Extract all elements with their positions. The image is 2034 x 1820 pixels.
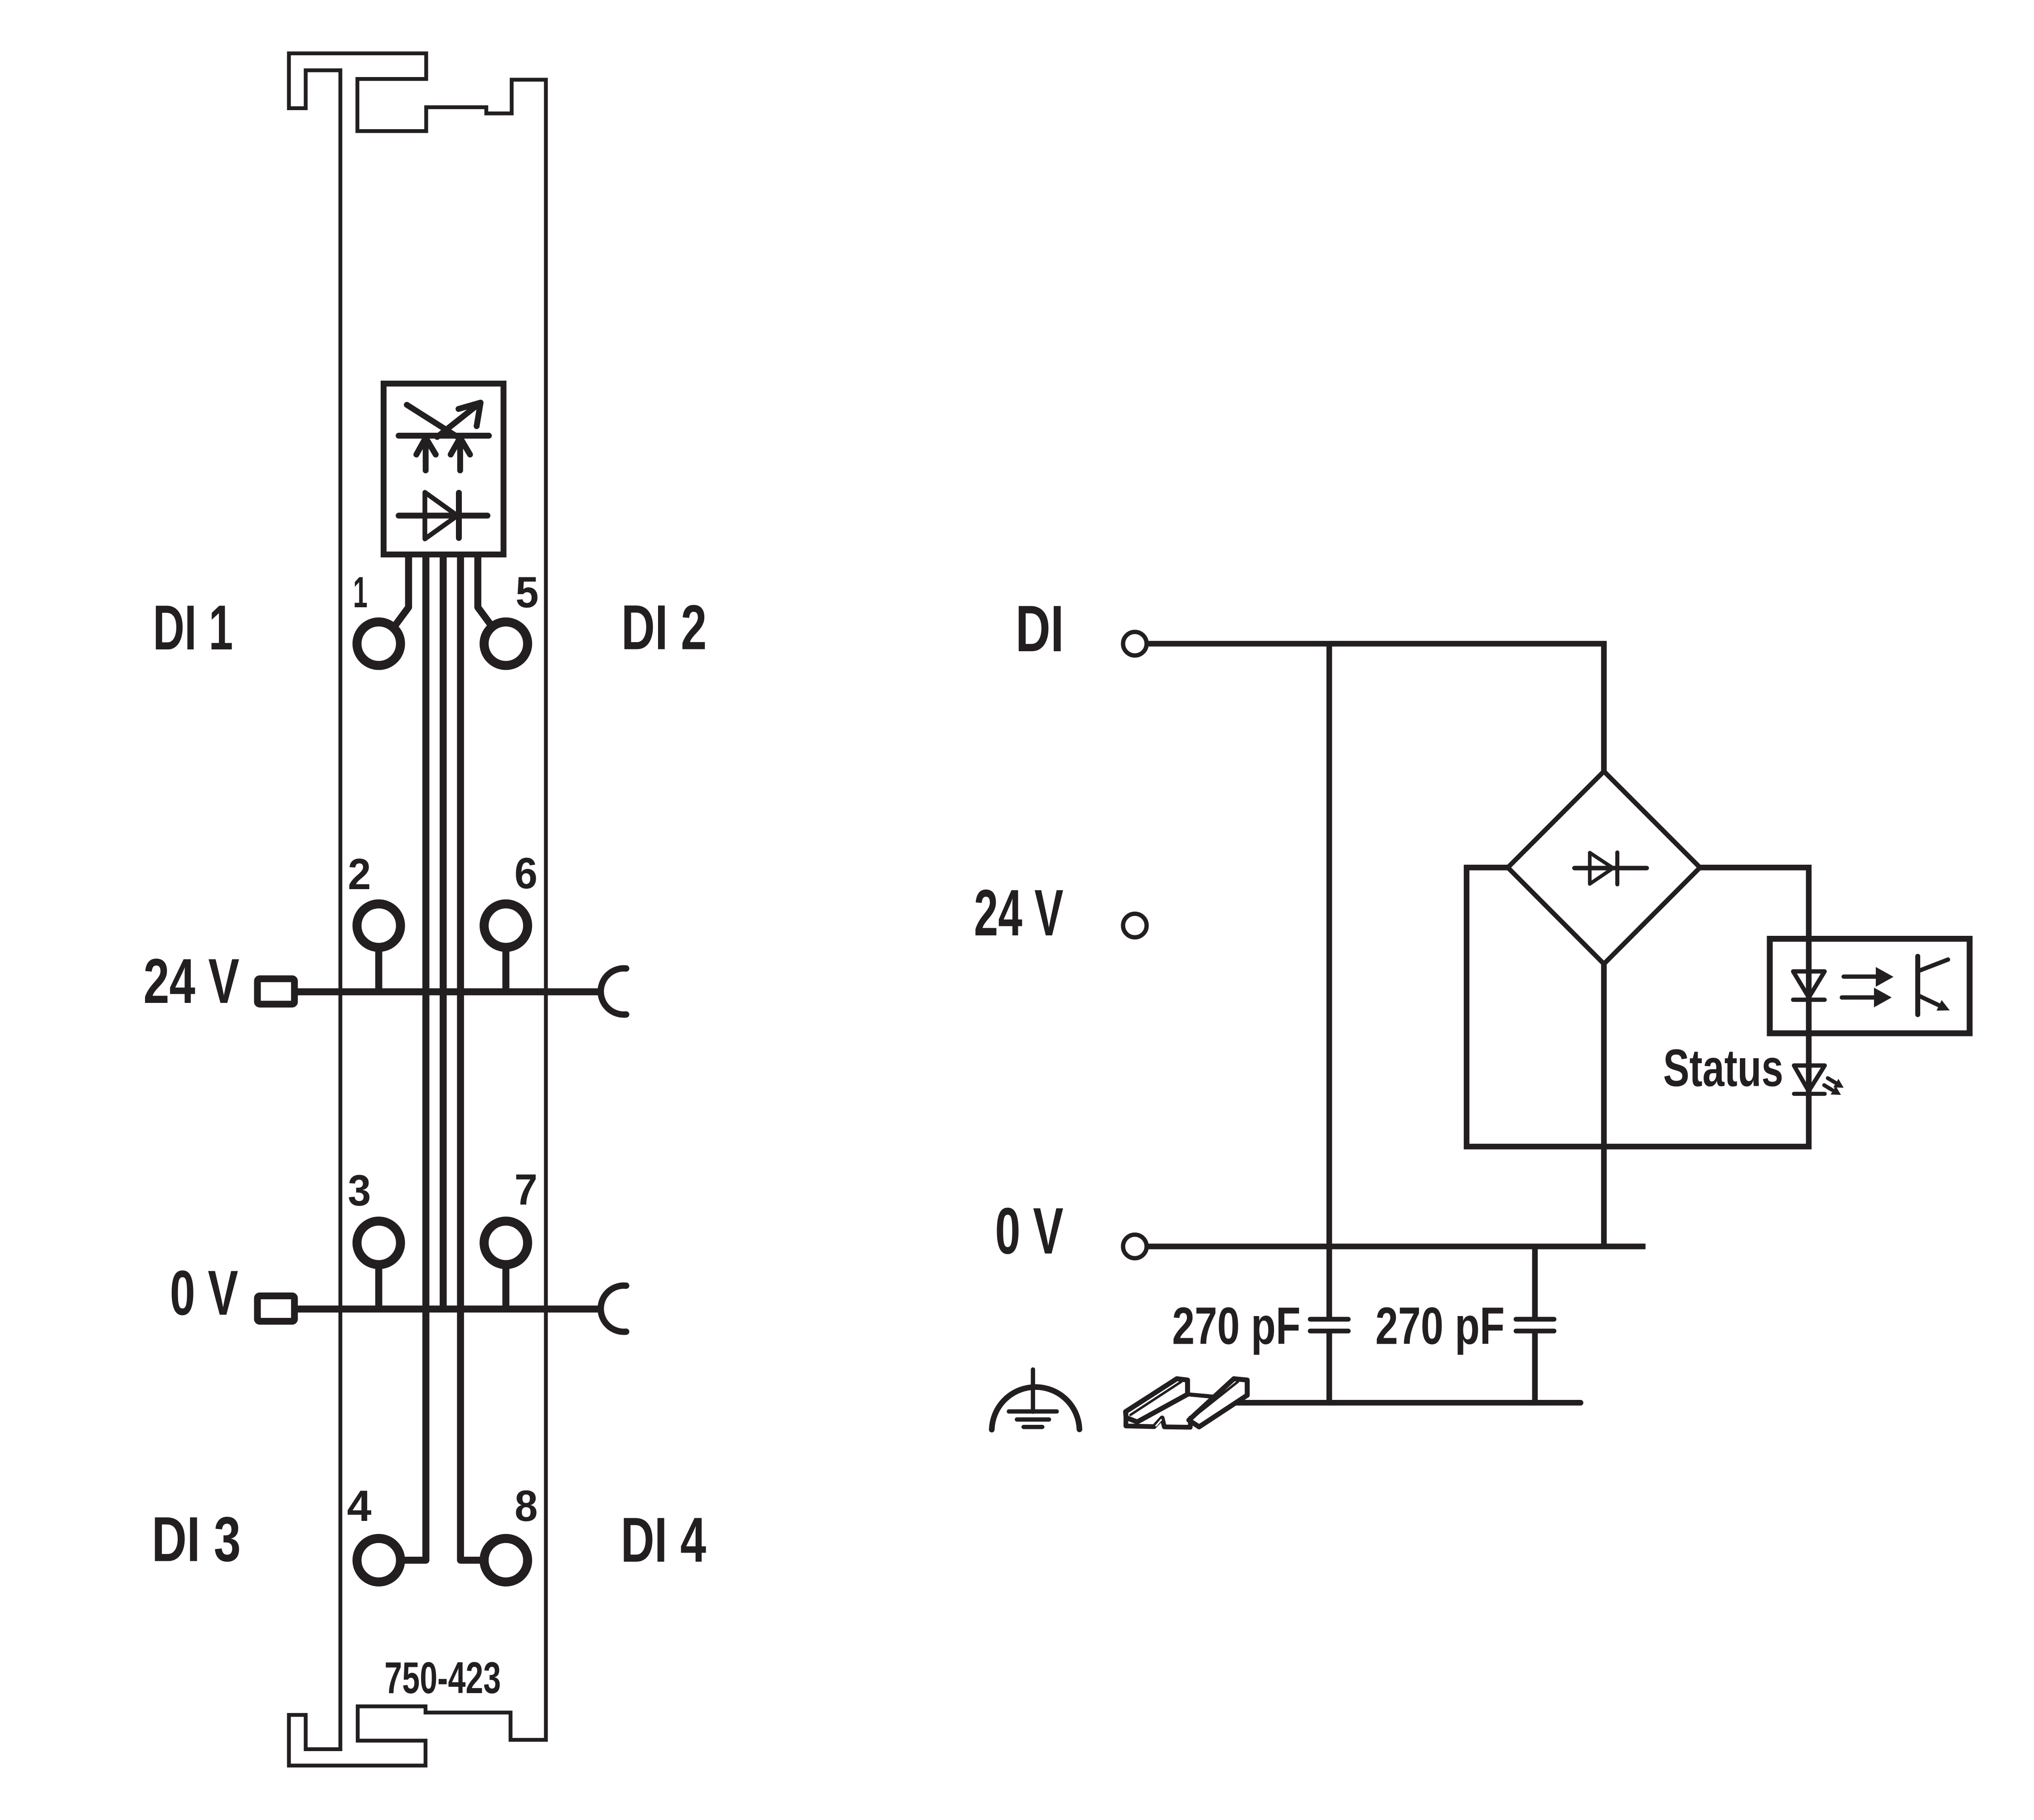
svg-text:1: 1 [353,568,368,617]
capacitor C1 plate top [1310,1317,1348,1322]
capacitor C1 lower wire [1327,1333,1332,1403]
svg-text:750-423: 750-423 [384,1653,501,1703]
stem terminal 6 to 24V rail [502,950,509,992]
stem terminal 3 to 0V rail [375,1267,383,1309]
opto box wire through [1806,935,1812,1036]
rail left flange ridge [1131,1382,1182,1415]
svg-text:DI 2: DI 2 [621,592,707,663]
terminal 2 [357,904,401,948]
svg-text:7: 7 [514,1166,538,1214]
capacitor C2 plate top [1516,1317,1554,1322]
svg-text:2: 2 [348,850,371,899]
functional earth bar 1 [1009,1409,1057,1414]
wire bridge bottom to 0V [1601,964,1607,1246]
svg-text:270 pF: 270 pF [1375,1296,1505,1355]
svg-text:DI 4: DI 4 [621,1504,707,1575]
rail bottom profile with notch [1126,1418,1194,1428]
rail right flange ridge [1193,1382,1238,1417]
diode D1 cathode bar [456,493,462,538]
svg-text:3: 3 [348,1167,371,1215]
rail left flange bar [1126,1379,1188,1422]
photo-LED symbol bar [399,433,489,439]
diode D1 triangle [425,492,458,539]
svg-text:DI: DI [1016,592,1064,665]
wire DI to bridge top [1147,644,1604,771]
wire pin D to terminal 8 [460,554,484,1560]
rail web far edge [1187,1394,1227,1398]
0V rail wire [298,1306,603,1313]
up arrow right (diode 2) [450,438,470,455]
svg-text:8: 8 [515,1482,538,1530]
wire pin B to terminal 4 [401,554,426,1560]
light arrow 1 [1844,974,1875,979]
svg-text:6: 6 [514,849,538,898]
stem terminal 7 to 0V rail [502,1267,509,1309]
terminal 0V [1123,1234,1147,1258]
photo-LED arrowhead [459,402,481,426]
rail right flange bar [1189,1379,1247,1427]
status LED cathode [1794,1092,1825,1096]
24V jumper contact arc [601,968,626,1015]
rail web floor [1137,1394,1227,1422]
wire branch DI to capacitor 1 [1327,644,1332,1317]
24V tag [257,979,295,1004]
terminal 4 [357,1539,401,1582]
phototransistor emitter [1919,996,1941,1007]
svg-text:0 V: 0 V [995,1194,1064,1268]
terminal 3 [357,1221,401,1265]
phototransistor collector [1919,959,1948,971]
photo-LED arrow shaft [437,407,475,437]
opto LED triangle [1793,972,1825,998]
bridge rectifier diamond [1508,771,1700,964]
functional earth vertical [1031,1370,1035,1412]
terminal 5 [484,622,528,665]
svg-text:DI 3: DI 3 [152,1504,241,1575]
capacitor C2 upper wire [1532,1246,1538,1317]
terminal 7 [484,1221,528,1265]
svg-text:24 V: 24 V [143,945,239,1016]
capacitor C2 plate bottom [1516,1329,1554,1334]
svg-text:0 V: 0 V [170,1257,238,1328]
functional earth symbol arc [992,1387,1080,1430]
status LED emission arrow 2 [1824,1085,1832,1090]
svg-text:DI 1: DI 1 [153,592,233,663]
functional earth bar 2 [1017,1417,1049,1422]
status LED emission arrow 1 [1828,1078,1835,1083]
bridge diode line [1574,866,1647,871]
wire pin E to terminal 5 [478,554,492,626]
module outline 750-423 body [289,53,546,1766]
optocoupler box right [1770,939,1970,1034]
0V jumper contact arc [601,1286,626,1332]
svg-text:Status: Status [1663,1039,1783,1098]
rail notch slash [1156,1420,1161,1426]
svg-text:270 pF: 270 pF [1172,1296,1300,1355]
24V rail wire [298,988,603,996]
0V tag [257,1296,295,1321]
up arrow left (diode 1) [416,438,436,455]
bridge diode triangle [1590,853,1613,884]
opto LED cathode [1793,997,1825,1002]
wire 0V rail right [1146,1244,1646,1249]
earth rail wire [1220,1400,1580,1406]
capacitor C1 plate bottom [1310,1329,1348,1334]
terminal 1 [357,622,401,665]
bridge diode cathode [1615,852,1619,885]
diode D1 line [399,513,488,518]
wire pin A to terminal 1 [395,554,409,626]
optocoupler block U1 [383,383,504,554]
stem terminal 2 to 24V rail [375,950,383,992]
DIN rail 3D symbol [1126,1379,1247,1427]
phototransistor base bar [1915,956,1920,1015]
functional earth bar 3 [1024,1425,1042,1429]
terminal DI [1123,632,1147,655]
wire pin C to 0V rail [440,554,447,1309]
svg-text:5: 5 [516,568,539,617]
light arrow 2 [1842,995,1874,1000]
photo-LED left diagonal [407,405,456,436]
wire loop bridge left vertex, loop bottom, bridge right vertex [1467,867,1809,1147]
capacitor C2 lower wire [1532,1333,1538,1403]
svg-text:24 V: 24 V [974,876,1063,949]
terminal 8 [484,1539,528,1582]
terminal 24V [1123,914,1147,937]
svg-text:4: 4 [347,1482,372,1530]
terminal 6 [484,904,528,948]
status LED triangle [1794,1065,1825,1091]
